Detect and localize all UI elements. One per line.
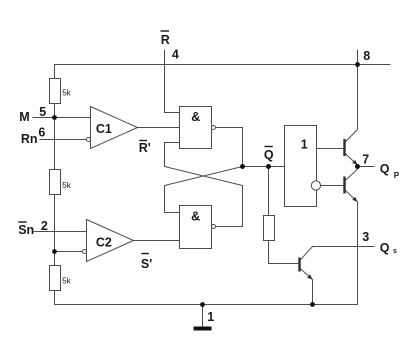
svg-text:Q: Q [264, 148, 274, 162]
svg-text:5k: 5k [62, 181, 71, 190]
svg-text:6: 6 [38, 126, 45, 140]
svg-text:7: 7 [362, 152, 369, 166]
svg-text:2: 2 [41, 219, 48, 233]
svg-text:s: s [393, 248, 397, 255]
svg-text:M: M [19, 110, 29, 124]
svg-text:R: R [161, 33, 170, 47]
svg-text:P: P [394, 171, 400, 180]
svg-text:C2: C2 [96, 236, 112, 250]
svg-text:Q: Q [380, 162, 390, 176]
svg-text:C1: C1 [96, 122, 112, 136]
svg-text:4: 4 [172, 47, 179, 61]
svg-text:3: 3 [362, 230, 369, 244]
svg-text:5: 5 [39, 105, 46, 119]
svg-text:S': S' [141, 257, 152, 271]
svg-text:&: & [191, 110, 200, 124]
svg-text:Rn: Rn [21, 132, 38, 146]
svg-text:1: 1 [207, 310, 214, 324]
svg-text:1: 1 [301, 137, 308, 151]
svg-text:5k: 5k [62, 89, 71, 98]
svg-text:Sn: Sn [18, 223, 34, 237]
svg-text:Q: Q [380, 241, 390, 255]
svg-text:R': R' [139, 141, 151, 155]
svg-text:5k: 5k [62, 277, 71, 286]
svg-text:8: 8 [363, 49, 370, 63]
svg-text:&: & [191, 210, 200, 224]
